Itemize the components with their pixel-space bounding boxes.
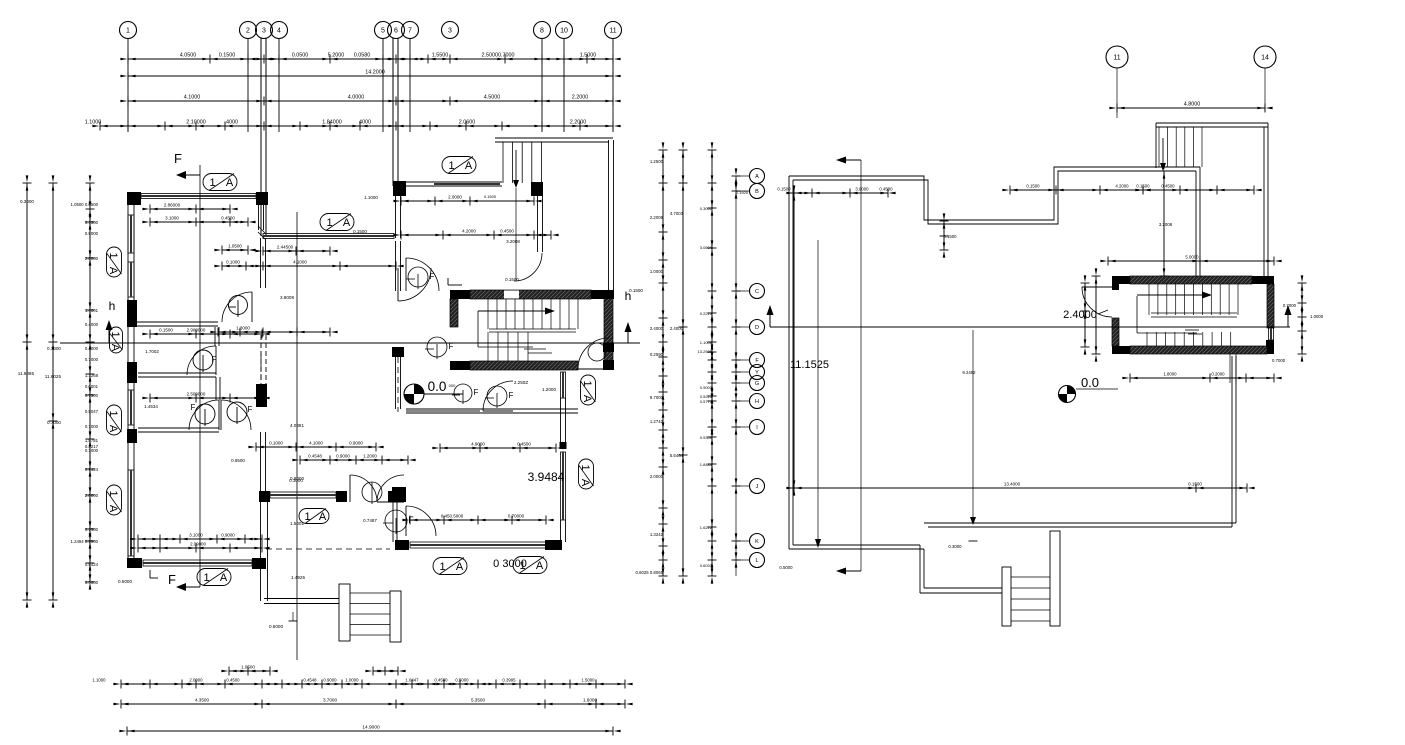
rshaft right window — [1269, 328, 1274, 340]
wall int h3 low — [138, 427, 219, 429]
svg-text:2.44500: 2.44500 — [277, 245, 294, 250]
svg-text:0.1500: 0.1500 — [85, 527, 99, 532]
rp stair right stringer — [1050, 531, 1060, 626]
grid line 11 right — [1116, 68, 1118, 118]
svg-text:1: 1 — [448, 160, 454, 172]
svg-text:K: K — [755, 539, 759, 545]
svg-text:0.7000: 0.7000 — [1283, 303, 1297, 308]
grid line 10 — [563, 38, 565, 132]
row bubble J — [750, 479, 765, 494]
grid bubble 10 — [556, 22, 573, 39]
bottom dim row 3 — [127, 730, 613, 732]
column right of top wall — [531, 182, 543, 196]
svg-text:1: 1 — [107, 490, 119, 496]
row bubble C — [750, 284, 765, 299]
rp vdim 3.2 — [1163, 171, 1165, 276]
svg-text:1.6000: 1.6000 — [583, 698, 597, 703]
column axis6 mid — [392, 347, 404, 357]
svg-text:1: 1 — [579, 464, 591, 470]
row bubble B — [750, 184, 765, 199]
rshaft break — [1185, 329, 1199, 331]
svg-text:1.5000: 1.5000 — [581, 678, 595, 683]
svg-text:2.2000: 2.2000 — [570, 120, 587, 126]
svg-text:0.6025 0.8065: 0.6025 0.8065 — [636, 570, 664, 575]
left outer wall upper — [127, 205, 129, 558]
stadium bottom right — [513, 557, 547, 574]
door top right room arc — [406, 258, 439, 291]
grid bubble 11 — [605, 22, 622, 39]
svg-text:0.9000: 0.9000 — [85, 231, 99, 236]
stadium lp12 — [579, 459, 594, 489]
svg-text:0.1500: 0.1500 — [219, 53, 236, 59]
dashed line bottom — [266, 548, 390, 550]
roof wall right v — [1195, 171, 1197, 276]
shaft right col mid — [603, 343, 614, 352]
row bubble K — [750, 534, 765, 549]
left dim col mid — [52, 183, 54, 600]
wall hall v x263 b — [260, 432, 262, 491]
circ lm1 — [229, 296, 248, 315]
shaft door gap — [504, 291, 519, 299]
svg-text:0.1000: 0.1000 — [269, 441, 283, 446]
svg-text:5.5464: 5.5464 — [670, 453, 684, 458]
rshaft top black L — [1112, 276, 1130, 284]
svg-text:2.250Z: 2.250Z — [514, 380, 528, 385]
svg-text:13.2525: 13.2525 — [698, 349, 713, 354]
svg-text:D: D — [755, 325, 759, 331]
svg-text:0.9309: 0.9309 — [700, 435, 713, 440]
stair direction arrow — [478, 310, 545, 312]
row bubble G — [750, 376, 765, 391]
inner dim q — [138, 547, 262, 549]
inner dim f — [401, 200, 534, 202]
svg-text:F: F — [248, 405, 253, 414]
svg-text:0.450.5000: 0.450.5000 — [441, 514, 464, 519]
wall room divider h — [406, 408, 578, 410]
svg-text:A: A — [107, 505, 119, 513]
svg-text:0.1500: 0.1500 — [505, 277, 519, 282]
svg-text:h: h — [109, 299, 116, 313]
svg-text:1.0000: 1.0000 — [650, 269, 664, 274]
svg-text:1.3000: 1.3000 — [236, 326, 250, 331]
row bubble F — [750, 353, 765, 368]
svg-text:1: 1 — [109, 331, 121, 337]
left wall window 2 — [128, 262, 134, 297]
circ lm2 — [193, 350, 213, 370]
svg-text:1.6222: 1.6222 — [700, 525, 713, 530]
top wall left section window — [141, 194, 256, 199]
wall bottom room window — [270, 492, 336, 498]
stair down arrow — [515, 150, 517, 180]
svg-text:5.2000: 5.2000 — [328, 53, 345, 59]
wall mid h — [406, 410, 480, 412]
door circ bottom mid — [362, 482, 382, 502]
svg-text:4.1000: 4.1000 — [309, 441, 323, 446]
rp vdim left shaft — [1095, 276, 1097, 354]
rp stair treads — [1011, 576, 1050, 578]
svg-text:0.3000: 0.3000 — [20, 199, 34, 204]
stair treads upper flight — [487, 299, 489, 329]
grid line 2 — [247, 38, 249, 132]
svg-text:2.09000: 2.09000 — [190, 542, 206, 547]
svg-text:2.2000: 2.2000 — [572, 95, 589, 101]
wall v below col — [537, 196, 539, 252]
svg-text:5: 5 — [381, 28, 385, 35]
row bubble Y — [750, 365, 765, 380]
grid bubble 3 — [442, 22, 459, 39]
porch wall left — [260, 502, 262, 601]
svg-text:1.5000: 1.5000 — [580, 53, 597, 59]
svg-text:0.3995: 0.3995 — [502, 678, 516, 683]
column axis3 top — [256, 192, 268, 205]
svg-text:0.5000: 0.5000 — [779, 565, 793, 570]
svg-text:0.7487: 0.7487 — [363, 518, 377, 523]
svg-text:3.0504: 3.0504 — [700, 245, 713, 250]
svg-text:4: 4 — [277, 28, 281, 35]
svg-text:9.2492: 9.2492 — [962, 370, 976, 375]
shaft right wall — [604, 298, 613, 361]
wall right v mid — [560, 398, 562, 442]
grid bubble 5 — [375, 22, 392, 39]
svg-text:0.3000: 0.3000 — [700, 206, 713, 211]
stadium lp6 — [107, 405, 122, 435]
svg-text:1.1008: 1.1008 — [700, 340, 713, 345]
circ top right room — [408, 267, 428, 287]
rp dim a — [794, 192, 888, 194]
arrow h right — [627, 332, 629, 343]
shaft bottom wall hatch — [470, 361, 578, 370]
svg-text:A: A — [465, 160, 473, 172]
wall int v wall x217 b — [215, 377, 217, 400]
svg-text:2.509000: 2.509000 — [187, 392, 206, 397]
svg-text:0.5000: 0.5000 — [85, 580, 99, 585]
svg-text:11: 11 — [609, 28, 616, 35]
svg-text:0.2213: 0.2213 — [700, 311, 713, 316]
row bubble I — [750, 420, 765, 435]
vline 9.2492 — [972, 330, 974, 517]
door bottom F — [406, 506, 436, 536]
left wall col a — [127, 300, 137, 327]
grid line 14 right — [1264, 68, 1266, 112]
door shaft left circ — [427, 337, 447, 357]
svg-text:0.0580: 0.0580 — [354, 53, 371, 59]
rshaft treads upper — [1148, 284, 1150, 315]
right stair left edge — [1155, 123, 1157, 168]
svg-text:1.1268: 1.1268 — [85, 373, 99, 378]
svg-text:0.1500: 0.1500 — [484, 194, 497, 199]
arrow D right — [1287, 315, 1289, 327]
svg-text:H: H — [755, 399, 759, 405]
svg-text:1.2500: 1.2500 — [650, 159, 664, 164]
stair bottom right stringer — [390, 591, 401, 642]
svg-text:0.7000: 0.7000 — [85, 424, 99, 429]
benchmark left plan — [404, 384, 424, 404]
rshaft right wall hatch — [1267, 284, 1274, 328]
svg-text:1.3242: 1.3242 — [650, 532, 664, 537]
stair treads top right — [502, 142, 504, 183]
svg-text:A: A — [220, 572, 228, 584]
rp section v1 — [817, 240, 819, 539]
stadium lp2 — [320, 214, 354, 231]
svg-text:A: A — [456, 561, 464, 573]
svg-text:0.4500: 0.4500 — [517, 442, 531, 447]
rp dim b — [1010, 189, 1143, 191]
svg-text:3.8008: 3.8008 — [280, 295, 294, 300]
svg-text:2.4000: 2.4000 — [670, 326, 684, 331]
inner dim o — [410, 519, 546, 521]
shaft bottom wall black L — [450, 361, 470, 370]
svg-text:B: B — [755, 189, 759, 195]
svg-text:0.1500: 0.1500 — [1136, 184, 1150, 189]
svg-text:0.7000: 0.7000 — [47, 420, 61, 425]
rp section v2 — [860, 160, 862, 571]
inner dim j — [218, 331, 330, 333]
svg-text:1.5500: 1.5500 — [432, 53, 449, 59]
dim 13.4000 — [794, 487, 1247, 489]
column bottom-left — [127, 558, 142, 568]
shaft left wall hatch — [450, 299, 458, 327]
rp arrow bottom — [846, 570, 861, 572]
porch outline right plan — [920, 592, 1002, 594]
svg-text:14.2000: 14.2000 — [365, 70, 385, 76]
svg-text:0.1000: 0.1000 — [226, 260, 240, 265]
svg-text:4000: 4000 — [359, 120, 371, 126]
svg-text:F: F — [168, 572, 176, 587]
double door bottom — [350, 475, 377, 502]
svg-text:0.7000: 0.7000 — [1272, 358, 1286, 363]
inner dim g — [401, 234, 551, 236]
svg-text:4.0000: 4.0000 — [348, 95, 365, 101]
row bubble L — [750, 553, 765, 568]
svg-text:14.9000: 14.9000 — [362, 725, 380, 731]
rshaft bottom hatch — [1130, 346, 1267, 354]
inner dim m — [300, 459, 408, 461]
svg-text:A: A — [536, 560, 544, 572]
svg-text:4.3500: 4.3500 — [195, 698, 209, 703]
svg-text:8: 8 — [540, 28, 544, 35]
top dim row 3 — [128, 100, 613, 102]
roof left wall — [788, 176, 790, 549]
stadium lp9 — [299, 509, 329, 524]
svg-text:0.9000: 0.9000 — [700, 385, 713, 390]
roof right wall low — [1231, 356, 1233, 527]
svg-text:1.7002: 1.7002 — [145, 349, 159, 354]
svg-text:1.1000: 1.1000 — [85, 120, 102, 126]
svg-text:0.1500: 0.1500 — [1026, 184, 1040, 189]
stair treads lower flight — [487, 332, 489, 361]
svg-text:0.5000: 0.5000 — [455, 678, 469, 683]
svg-text:0.1500: 0.1500 — [1188, 482, 1202, 487]
svg-text:3.1000: 3.1000 — [189, 533, 203, 538]
svg-text:0.2590: 0.2590 — [650, 352, 664, 357]
svg-text:4.8000: 4.8000 — [1184, 102, 1201, 108]
svg-text:0.4548: 0.4548 — [303, 678, 317, 683]
grid line 5 — [382, 38, 384, 132]
svg-text:A: A — [107, 425, 119, 433]
grid axis 6 double line — [392, 38, 394, 186]
stair bottom treads — [350, 592, 390, 594]
rshaft bottom dim — [1130, 377, 1274, 379]
svg-text:6: 6 — [394, 28, 398, 35]
column bottom mid — [252, 558, 266, 569]
elbow mark bl — [149, 570, 151, 578]
left wall window 4 — [128, 470, 134, 556]
circ lm4 — [227, 402, 247, 422]
svg-text:0.7500: 0.7500 — [85, 393, 99, 398]
wall int h1 upper — [134, 321, 218, 323]
section line D — [770, 326, 1290, 328]
right outer wall upper — [608, 140, 610, 290]
svg-text:0.1500: 0.1500 — [943, 234, 957, 239]
circ lm3 — [195, 404, 215, 424]
svg-text:1: 1 — [209, 177, 215, 189]
roof bottom left step — [789, 548, 924, 550]
svg-text:F: F — [474, 388, 479, 397]
svg-text:A: A — [107, 267, 119, 275]
svg-text:3: 3 — [262, 28, 266, 35]
stadium lp1 — [203, 174, 237, 191]
column bb 2 — [395, 540, 409, 550]
mid dim col 2 — [682, 150, 684, 576]
svg-text:2.10000: 2.10000 — [186, 120, 206, 126]
svg-text:G: G — [755, 381, 759, 387]
svg-text:0.3000: 0.3000 — [948, 544, 962, 549]
svg-text:1.0500: 1.0500 — [241, 665, 255, 670]
rshaft bottom black L — [1112, 346, 1130, 354]
svg-text:1.1000: 1.1000 — [364, 195, 378, 200]
svg-text:2.0000: 2.0000 — [85, 493, 99, 498]
rp dim c — [1143, 189, 1254, 191]
svg-text:2.0000: 2.0000 — [189, 678, 203, 683]
svg-text:0.5000: 0.5000 — [269, 624, 283, 629]
svg-text:0.1500: 0.1500 — [629, 288, 643, 293]
bottom mini dim 2 — [373, 670, 398, 672]
mid bubble line — [735, 176, 737, 576]
svg-text:1: 1 — [107, 410, 119, 416]
svg-text:0.8500: 0.8500 — [231, 458, 245, 463]
grid bubble 6 — [388, 22, 405, 39]
circ corridor — [454, 384, 472, 402]
circ bottom F — [385, 510, 407, 532]
top dim row 2 overall — [128, 75, 613, 77]
svg-text:11: 11 — [1113, 55, 1120, 62]
svg-text:0.1500: 0.1500 — [777, 187, 791, 192]
door lm1 hall — [222, 292, 252, 322]
grid bubble 7 — [402, 22, 419, 39]
porch wall bottom — [264, 598, 339, 600]
svg-text:1: 1 — [107, 252, 119, 258]
left wall window 3 — [128, 390, 134, 425]
stadium lp3 — [442, 157, 476, 174]
svg-text:1.84000: 1.84000 — [322, 120, 342, 126]
inner dim e — [222, 265, 396, 267]
svg-text:0.9000: 0.9000 — [221, 533, 235, 538]
column br 2 — [336, 491, 347, 502]
column top-left — [127, 192, 141, 205]
stadium lp4 — [107, 247, 122, 277]
svg-text:0.9000: 0.9000 — [290, 476, 304, 481]
svg-text:0.4000: 0.4000 — [85, 322, 99, 327]
svg-text:3.9000: 3.9000 — [855, 187, 869, 192]
inner dim k — [150, 397, 262, 399]
wall stub br — [392, 502, 394, 542]
svg-text:0.0: 0.0 — [428, 379, 447, 394]
section line mid — [296, 212, 298, 660]
svg-text:000: 000 — [449, 383, 456, 388]
bottom wall left room window — [143, 560, 252, 566]
svg-text:4.1000: 4.1000 — [184, 95, 201, 101]
top dim row 1 — [128, 58, 613, 60]
stair bottom left stringer — [339, 584, 350, 641]
svg-text:1.8484: 1.8484 — [700, 462, 713, 467]
shaft top wall hatch — [470, 290, 591, 299]
door lm2 — [187, 346, 216, 375]
svg-text:0.4500: 0.4500 — [1161, 184, 1175, 189]
svg-text:F: F — [174, 151, 182, 166]
svg-text:7: 7 — [408, 28, 412, 35]
svg-text:0.4500: 0.4500 — [226, 678, 240, 683]
left dim col inner — [89, 183, 91, 582]
svg-text:3.2008: 3.2008 — [1159, 222, 1173, 227]
grid bubble 8 — [534, 22, 551, 39]
svg-text:0.9000: 0.9000 — [336, 454, 350, 459]
svg-text:0.1000: 0.1000 — [85, 448, 99, 453]
svg-text:3.1000: 3.1000 — [165, 216, 179, 221]
svg-text:A: A — [343, 217, 351, 229]
svg-text:A: A — [109, 344, 121, 352]
svg-text:5.0000: 5.0000 — [1185, 255, 1199, 260]
rp dim 0.1500 v — [943, 221, 945, 250]
svg-text:1.2742: 1.2742 — [650, 419, 664, 424]
svg-text:0.1920: 0.1920 — [736, 190, 749, 195]
arrow h left — [108, 330, 110, 343]
left wall col c — [127, 429, 137, 443]
grid line 11 — [612, 38, 614, 132]
stair mid stringer — [489, 328, 576, 330]
row bubble A — [750, 169, 765, 184]
rshaft left wall low — [1112, 318, 1119, 346]
mid dim col 3 — [711, 150, 713, 576]
arrow D left — [769, 315, 771, 327]
door mid right — [483, 381, 513, 411]
svg-text:0.4500: 0.4500 — [221, 216, 235, 221]
wall stair top — [552, 137, 609, 139]
rp dim 5.0 — [1108, 260, 1274, 262]
wall below shaft corridor — [480, 408, 575, 410]
leader 2.4000 — [1098, 310, 1108, 314]
svg-text:0.6001: 0.6001 — [85, 384, 99, 389]
svg-text:0.6033: 0.6033 — [700, 563, 713, 568]
svg-text:A: A — [319, 511, 327, 523]
grid bubble 2 — [240, 22, 257, 39]
svg-text:13.4000: 13.4000 — [1004, 482, 1021, 487]
roof bottom wall — [924, 522, 1236, 524]
grid bubble 3 — [256, 22, 273, 39]
svg-text:11.1525: 11.1525 — [790, 359, 829, 371]
rshaft treads lower — [1146, 332, 1148, 346]
svg-text:0.9424: 0.9424 — [85, 467, 99, 472]
svg-text:0.7000: 0.7000 — [47, 346, 61, 351]
svg-text:3.9484: 3.9484 — [528, 470, 565, 484]
bench line right — [1076, 388, 1118, 390]
shaft right col bot — [603, 360, 614, 370]
mid dim col 1 — [662, 150, 664, 576]
roof outline outer — [789, 167, 1200, 220]
svg-text:1.0447: 1.0447 — [405, 678, 419, 683]
door lm4 — [221, 400, 251, 430]
svg-text:1.2000: 1.2000 — [363, 454, 377, 459]
rshaft rail — [1136, 296, 1138, 333]
